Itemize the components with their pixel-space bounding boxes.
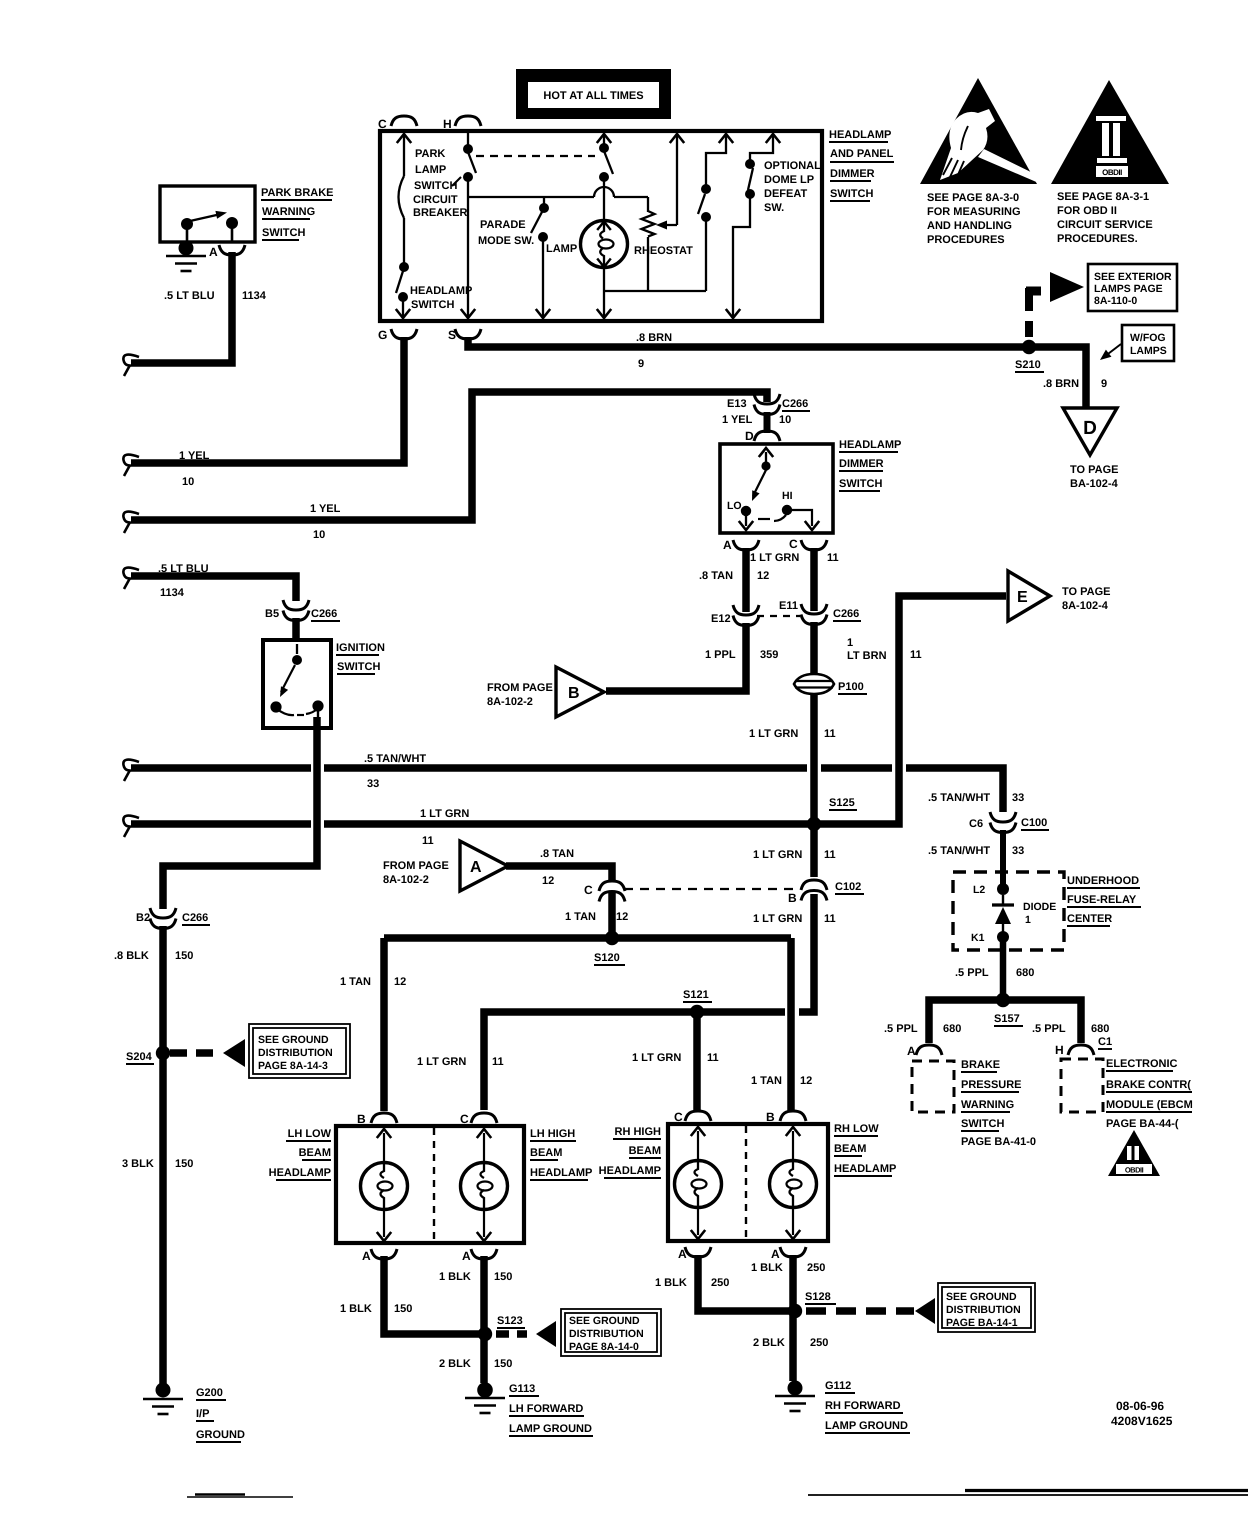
svg-text:150: 150 xyxy=(175,950,193,962)
svg-text:DOME LP: DOME LP xyxy=(764,174,814,186)
svg-text:C266: C266 xyxy=(833,608,859,620)
svg-text:C266: C266 xyxy=(311,608,337,620)
svg-text:PRESSURE: PRESSURE xyxy=(961,1079,1022,1091)
svg-text:1 YEL: 1 YEL xyxy=(722,414,753,426)
svg-text:8A-102-4: 8A-102-4 xyxy=(1062,600,1109,612)
svg-text:DIMMER: DIMMER xyxy=(839,458,884,470)
svg-text:RH LOW: RH LOW xyxy=(834,1123,879,1135)
svg-text:SEE PAGE 8A-3-1: SEE PAGE 8A-3-1 xyxy=(1057,191,1149,203)
svg-text:PARADE: PARADE xyxy=(480,219,526,231)
svg-text:LAMPS PAGE: LAMPS PAGE xyxy=(1094,283,1163,295)
svg-text:.5 TAN/WHT: .5 TAN/WHT xyxy=(928,792,990,804)
svg-text:A: A xyxy=(470,859,482,876)
svg-text:H: H xyxy=(443,117,452,131)
svg-text:FOR MEASURING: FOR MEASURING xyxy=(927,206,1021,218)
svg-text:W/FOG: W/FOG xyxy=(1130,332,1166,344)
svg-text:2 BLK: 2 BLK xyxy=(439,1358,471,1370)
svg-text:1134: 1134 xyxy=(160,587,185,599)
svg-text:1 LT GRN: 1 LT GRN xyxy=(417,1056,466,1068)
svg-text:B: B xyxy=(788,891,797,905)
svg-text:HEADLAMP: HEADLAMP xyxy=(834,1163,896,1175)
svg-text:1 LT GRN: 1 LT GRN xyxy=(753,913,802,925)
svg-text:PARK: PARK xyxy=(415,148,445,160)
svg-text:S210: S210 xyxy=(1015,359,1041,371)
svg-text:AND PANEL: AND PANEL xyxy=(830,148,894,160)
svg-text:11: 11 xyxy=(824,913,836,925)
svg-text:RH HIGH: RH HIGH xyxy=(615,1126,662,1138)
svg-text:9: 9 xyxy=(1101,378,1107,390)
svg-text:1 LT GRN: 1 LT GRN xyxy=(632,1052,681,1064)
svg-text:1 LT GRN: 1 LT GRN xyxy=(753,849,802,861)
svg-text:SEE PAGE 8A-3-0: SEE PAGE 8A-3-0 xyxy=(927,192,1019,204)
svg-text:G113: G113 xyxy=(509,1383,535,1395)
svg-text:BEAM: BEAM xyxy=(834,1143,866,1155)
svg-text:FROM PAGE: FROM PAGE xyxy=(383,860,449,872)
svg-text:.5 LT BLU: .5 LT BLU xyxy=(158,563,209,575)
svg-text:DIODE: DIODE xyxy=(1023,901,1056,913)
svg-text:1 BLK: 1 BLK xyxy=(655,1277,687,1289)
svg-text:3 BLK: 3 BLK xyxy=(122,1158,154,1170)
svg-text:1 YEL: 1 YEL xyxy=(310,503,341,515)
svg-text:.8 BRN: .8 BRN xyxy=(636,332,672,344)
svg-text:OPTIONAL: OPTIONAL xyxy=(764,160,821,172)
svg-text:WARNING: WARNING xyxy=(961,1099,1014,1111)
svg-text:S204: S204 xyxy=(126,1051,153,1063)
svg-text:DEFEAT: DEFEAT xyxy=(764,188,807,200)
svg-text:FUSE-RELAY: FUSE-RELAY xyxy=(1067,894,1137,906)
svg-text:SWITCH: SWITCH xyxy=(262,227,305,239)
svg-text:AND HANDLING: AND HANDLING xyxy=(927,220,1012,232)
svg-text:B5: B5 xyxy=(265,608,279,620)
svg-text:DISTRIBUTION: DISTRIBUTION xyxy=(258,1047,333,1059)
svg-text:33: 33 xyxy=(367,778,379,790)
svg-text:PAGE BA-41-0: PAGE BA-41-0 xyxy=(961,1136,1036,1148)
svg-text:BA-102-4: BA-102-4 xyxy=(1070,478,1119,490)
svg-text:D: D xyxy=(745,429,754,443)
svg-text:150: 150 xyxy=(394,1303,412,1315)
svg-text:150: 150 xyxy=(494,1358,512,1370)
svg-text:11: 11 xyxy=(824,849,836,861)
svg-text:S121: S121 xyxy=(683,989,709,1001)
svg-text:C: C xyxy=(378,117,387,131)
svg-text:150: 150 xyxy=(175,1158,193,1170)
svg-text:250: 250 xyxy=(810,1337,828,1349)
svg-text:PAGE BA-44-(: PAGE BA-44-( xyxy=(1106,1118,1179,1130)
svg-text:9: 9 xyxy=(638,358,644,370)
svg-text:MODE SW.: MODE SW. xyxy=(478,235,534,247)
svg-text:BRAKE CONTR(: BRAKE CONTR( xyxy=(1106,1079,1191,1091)
svg-text:8A-110-0: 8A-110-0 xyxy=(1094,295,1137,307)
svg-text:LAMPS: LAMPS xyxy=(1130,345,1167,357)
svg-text:1 LT GRN: 1 LT GRN xyxy=(750,552,799,564)
svg-text:SEE EXTERIOR: SEE EXTERIOR xyxy=(1094,271,1172,283)
svg-text:.5 TAN/WHT: .5 TAN/WHT xyxy=(364,753,426,765)
svg-text:LAMP: LAMP xyxy=(546,243,577,255)
svg-text:H: H xyxy=(1055,1043,1064,1057)
svg-text:SEE GROUND: SEE GROUND xyxy=(569,1315,640,1327)
svg-text:D: D xyxy=(1083,418,1097,439)
svg-text:LO: LO xyxy=(727,500,742,512)
svg-text:SWITCH: SWITCH xyxy=(337,661,380,673)
svg-text:11: 11 xyxy=(910,649,922,661)
svg-text:CIRCUIT: CIRCUIT xyxy=(413,194,458,206)
svg-text:SWITCH: SWITCH xyxy=(411,299,454,311)
svg-text:SWITCH: SWITCH xyxy=(839,478,882,490)
svg-text:HI: HI xyxy=(782,490,793,502)
svg-text:1 BLK: 1 BLK xyxy=(439,1271,471,1283)
svg-text:A: A xyxy=(209,245,218,259)
svg-text:G200: G200 xyxy=(196,1387,223,1399)
svg-text:2 BLK: 2 BLK xyxy=(753,1337,785,1349)
svg-text:ELECTRONIC: ELECTRONIC xyxy=(1106,1058,1178,1070)
svg-text:G112: G112 xyxy=(825,1380,851,1392)
svg-text:12: 12 xyxy=(542,875,554,887)
svg-text:A: A xyxy=(771,1247,780,1261)
svg-text:E13: E13 xyxy=(727,398,747,410)
svg-text:1 PPL: 1 PPL xyxy=(705,649,736,661)
svg-text:PAGE 8A-14-0: PAGE 8A-14-0 xyxy=(569,1341,639,1353)
svg-text:B: B xyxy=(568,685,580,702)
svg-text:1 LT GRN: 1 LT GRN xyxy=(749,728,798,740)
svg-text:PAGE BA-14-1: PAGE BA-14-1 xyxy=(946,1317,1018,1329)
svg-text:B2: B2 xyxy=(136,912,150,924)
svg-text:4208V1625: 4208V1625 xyxy=(1111,1414,1173,1428)
svg-text:250: 250 xyxy=(807,1262,825,1274)
svg-text:08-06-96: 08-06-96 xyxy=(1116,1399,1164,1413)
svg-text:BREAKER: BREAKER xyxy=(413,207,467,219)
svg-text:C: C xyxy=(789,537,798,551)
svg-text:.5 PPL: .5 PPL xyxy=(955,967,989,979)
svg-text:8A-102-2: 8A-102-2 xyxy=(487,696,533,708)
svg-text:S157: S157 xyxy=(994,1013,1020,1025)
svg-text:.5 PPL: .5 PPL xyxy=(1032,1023,1066,1035)
svg-text:PARK BRAKE: PARK BRAKE xyxy=(261,187,334,199)
svg-text:C266: C266 xyxy=(782,398,808,410)
svg-text:TO PAGE: TO PAGE xyxy=(1070,464,1119,476)
svg-text:MODULE (EBCM: MODULE (EBCM xyxy=(1106,1099,1193,1111)
svg-text:BRAKE: BRAKE xyxy=(961,1059,1000,1071)
svg-text:S125: S125 xyxy=(829,797,855,809)
svg-text:1 TAN: 1 TAN xyxy=(340,976,371,988)
svg-text:I/P: I/P xyxy=(196,1408,209,1420)
svg-text:680: 680 xyxy=(943,1023,961,1035)
svg-text:A: A xyxy=(462,1249,471,1263)
svg-text:10: 10 xyxy=(779,414,791,426)
svg-text:LH HIGH: LH HIGH xyxy=(530,1128,575,1140)
svg-text:PROCEDURES: PROCEDURES xyxy=(927,234,1005,246)
svg-text:A: A xyxy=(723,538,732,552)
svg-text:1 YEL: 1 YEL xyxy=(179,450,210,462)
svg-text:SEE GROUND: SEE GROUND xyxy=(946,1291,1017,1303)
svg-text:S: S xyxy=(448,328,456,342)
svg-text:1 TAN: 1 TAN xyxy=(565,911,596,923)
svg-text:WARNING: WARNING xyxy=(262,206,315,218)
svg-text:11: 11 xyxy=(824,728,836,740)
svg-text:IGNITION: IGNITION xyxy=(336,642,385,654)
svg-text:A: A xyxy=(678,1247,687,1261)
svg-text:12: 12 xyxy=(800,1075,812,1087)
svg-text:S120: S120 xyxy=(594,952,620,964)
svg-text:A: A xyxy=(362,1249,371,1263)
svg-text:G: G xyxy=(378,328,387,342)
svg-text:12: 12 xyxy=(757,570,769,582)
svg-text:HEADLAMP: HEADLAMP xyxy=(530,1167,592,1179)
svg-text:DIMMER: DIMMER xyxy=(830,168,875,180)
svg-text:1: 1 xyxy=(847,637,853,649)
svg-text:SEE GROUND: SEE GROUND xyxy=(258,1034,329,1046)
svg-text:.8 BLK: .8 BLK xyxy=(114,950,149,962)
svg-text:HEADLAMP: HEADLAMP xyxy=(839,439,901,451)
svg-text:OBDII: OBDII xyxy=(1102,168,1122,177)
svg-text:OBDII: OBDII xyxy=(1125,1166,1144,1175)
svg-text:1: 1 xyxy=(1025,914,1031,926)
svg-text:P100: P100 xyxy=(838,681,864,693)
svg-text:UNDERHOOD: UNDERHOOD xyxy=(1067,875,1139,887)
svg-text:L2: L2 xyxy=(973,884,985,896)
svg-text:150: 150 xyxy=(494,1271,512,1283)
svg-text:SWITCH: SWITCH xyxy=(830,188,873,200)
svg-text:1 BLK: 1 BLK xyxy=(751,1262,783,1274)
svg-text:250: 250 xyxy=(711,1277,729,1289)
svg-text:BEAM: BEAM xyxy=(629,1145,661,1157)
svg-text:S123: S123 xyxy=(497,1315,523,1327)
svg-text:10: 10 xyxy=(182,476,194,488)
svg-text:PROCEDURES.: PROCEDURES. xyxy=(1057,233,1138,245)
svg-text:.5 TAN/WHT: .5 TAN/WHT xyxy=(928,845,990,857)
svg-text:CENTER: CENTER xyxy=(1067,913,1112,925)
svg-text:8A-102-2: 8A-102-2 xyxy=(383,874,429,886)
svg-text:A: A xyxy=(907,1044,916,1058)
svg-text:HEADLAMP: HEADLAMP xyxy=(829,129,891,141)
svg-text:DISTRIBUTION: DISTRIBUTION xyxy=(946,1304,1021,1316)
svg-text:11: 11 xyxy=(707,1052,719,1064)
svg-text:10: 10 xyxy=(313,529,325,541)
svg-text:12: 12 xyxy=(616,911,628,923)
svg-text:TO PAGE: TO PAGE xyxy=(1062,586,1111,598)
svg-text:RH FORWARD: RH FORWARD xyxy=(825,1400,901,1412)
svg-text:C266: C266 xyxy=(182,912,208,924)
svg-text:11: 11 xyxy=(827,552,839,564)
svg-text:11: 11 xyxy=(492,1056,504,1068)
svg-text:FROM PAGE: FROM PAGE xyxy=(487,682,553,694)
svg-text:PAGE 8A-14-3: PAGE 8A-14-3 xyxy=(258,1060,328,1072)
svg-text:BEAM: BEAM xyxy=(530,1147,562,1159)
svg-text:.8 TAN: .8 TAN xyxy=(540,848,574,860)
svg-text:DISTRIBUTION: DISTRIBUTION xyxy=(569,1328,644,1340)
svg-text:33: 33 xyxy=(1012,792,1024,804)
svg-text:E11: E11 xyxy=(779,600,798,612)
svg-text:C1: C1 xyxy=(1098,1036,1112,1048)
svg-text:1134: 1134 xyxy=(242,290,267,302)
svg-text:C100: C100 xyxy=(1021,817,1047,829)
svg-text:.8 TAN: .8 TAN xyxy=(699,570,733,582)
svg-text:C6: C6 xyxy=(969,818,983,830)
svg-text:FOR OBD II: FOR OBD II xyxy=(1057,205,1117,217)
svg-text:HEADLAMP: HEADLAMP xyxy=(269,1167,331,1179)
svg-text:.8 BRN: .8 BRN xyxy=(1043,378,1079,390)
svg-text:RHEOSTAT: RHEOSTAT xyxy=(634,245,693,257)
svg-text:CIRCUIT SERVICE: CIRCUIT SERVICE xyxy=(1057,219,1153,231)
svg-text:680: 680 xyxy=(1016,967,1034,979)
svg-text:SW.: SW. xyxy=(764,202,784,214)
svg-text:33: 33 xyxy=(1012,845,1024,857)
svg-text:HOT AT ALL TIMES: HOT AT ALL TIMES xyxy=(543,90,643,102)
svg-text:12: 12 xyxy=(394,976,406,988)
svg-text:359: 359 xyxy=(760,649,778,661)
svg-text:HEADLAMP: HEADLAMP xyxy=(410,285,472,297)
svg-text:S128: S128 xyxy=(805,1291,831,1303)
svg-text:E12: E12 xyxy=(711,613,731,625)
svg-text:1 LT GRN: 1 LT GRN xyxy=(420,808,469,820)
svg-text:K1: K1 xyxy=(971,932,985,944)
svg-text:11: 11 xyxy=(422,835,434,847)
svg-text:LH LOW: LH LOW xyxy=(288,1128,332,1140)
svg-text:.5 LT BLU: .5 LT BLU xyxy=(164,290,215,302)
svg-text:LAMP GROUND: LAMP GROUND xyxy=(509,1423,592,1435)
svg-text:C: C xyxy=(584,883,593,897)
svg-text:C102: C102 xyxy=(835,881,861,893)
svg-text:680: 680 xyxy=(1091,1023,1109,1035)
svg-text:1 TAN: 1 TAN xyxy=(751,1075,782,1087)
svg-text:SWITCH: SWITCH xyxy=(414,180,457,192)
svg-text:1 BLK: 1 BLK xyxy=(340,1303,372,1315)
svg-text:GROUND: GROUND xyxy=(196,1429,245,1441)
svg-text:LH FORWARD: LH FORWARD xyxy=(509,1403,583,1415)
svg-text:SWITCH: SWITCH xyxy=(961,1118,1004,1130)
svg-text:E: E xyxy=(1017,589,1028,606)
svg-text:HEADLAMP: HEADLAMP xyxy=(599,1165,661,1177)
svg-text:LAMP GROUND: LAMP GROUND xyxy=(825,1420,908,1432)
svg-text:.5 PPL: .5 PPL xyxy=(884,1023,918,1035)
svg-text:LT BRN: LT BRN xyxy=(847,650,887,662)
svg-text:LAMP: LAMP xyxy=(415,164,446,176)
svg-text:BEAM: BEAM xyxy=(299,1147,331,1159)
